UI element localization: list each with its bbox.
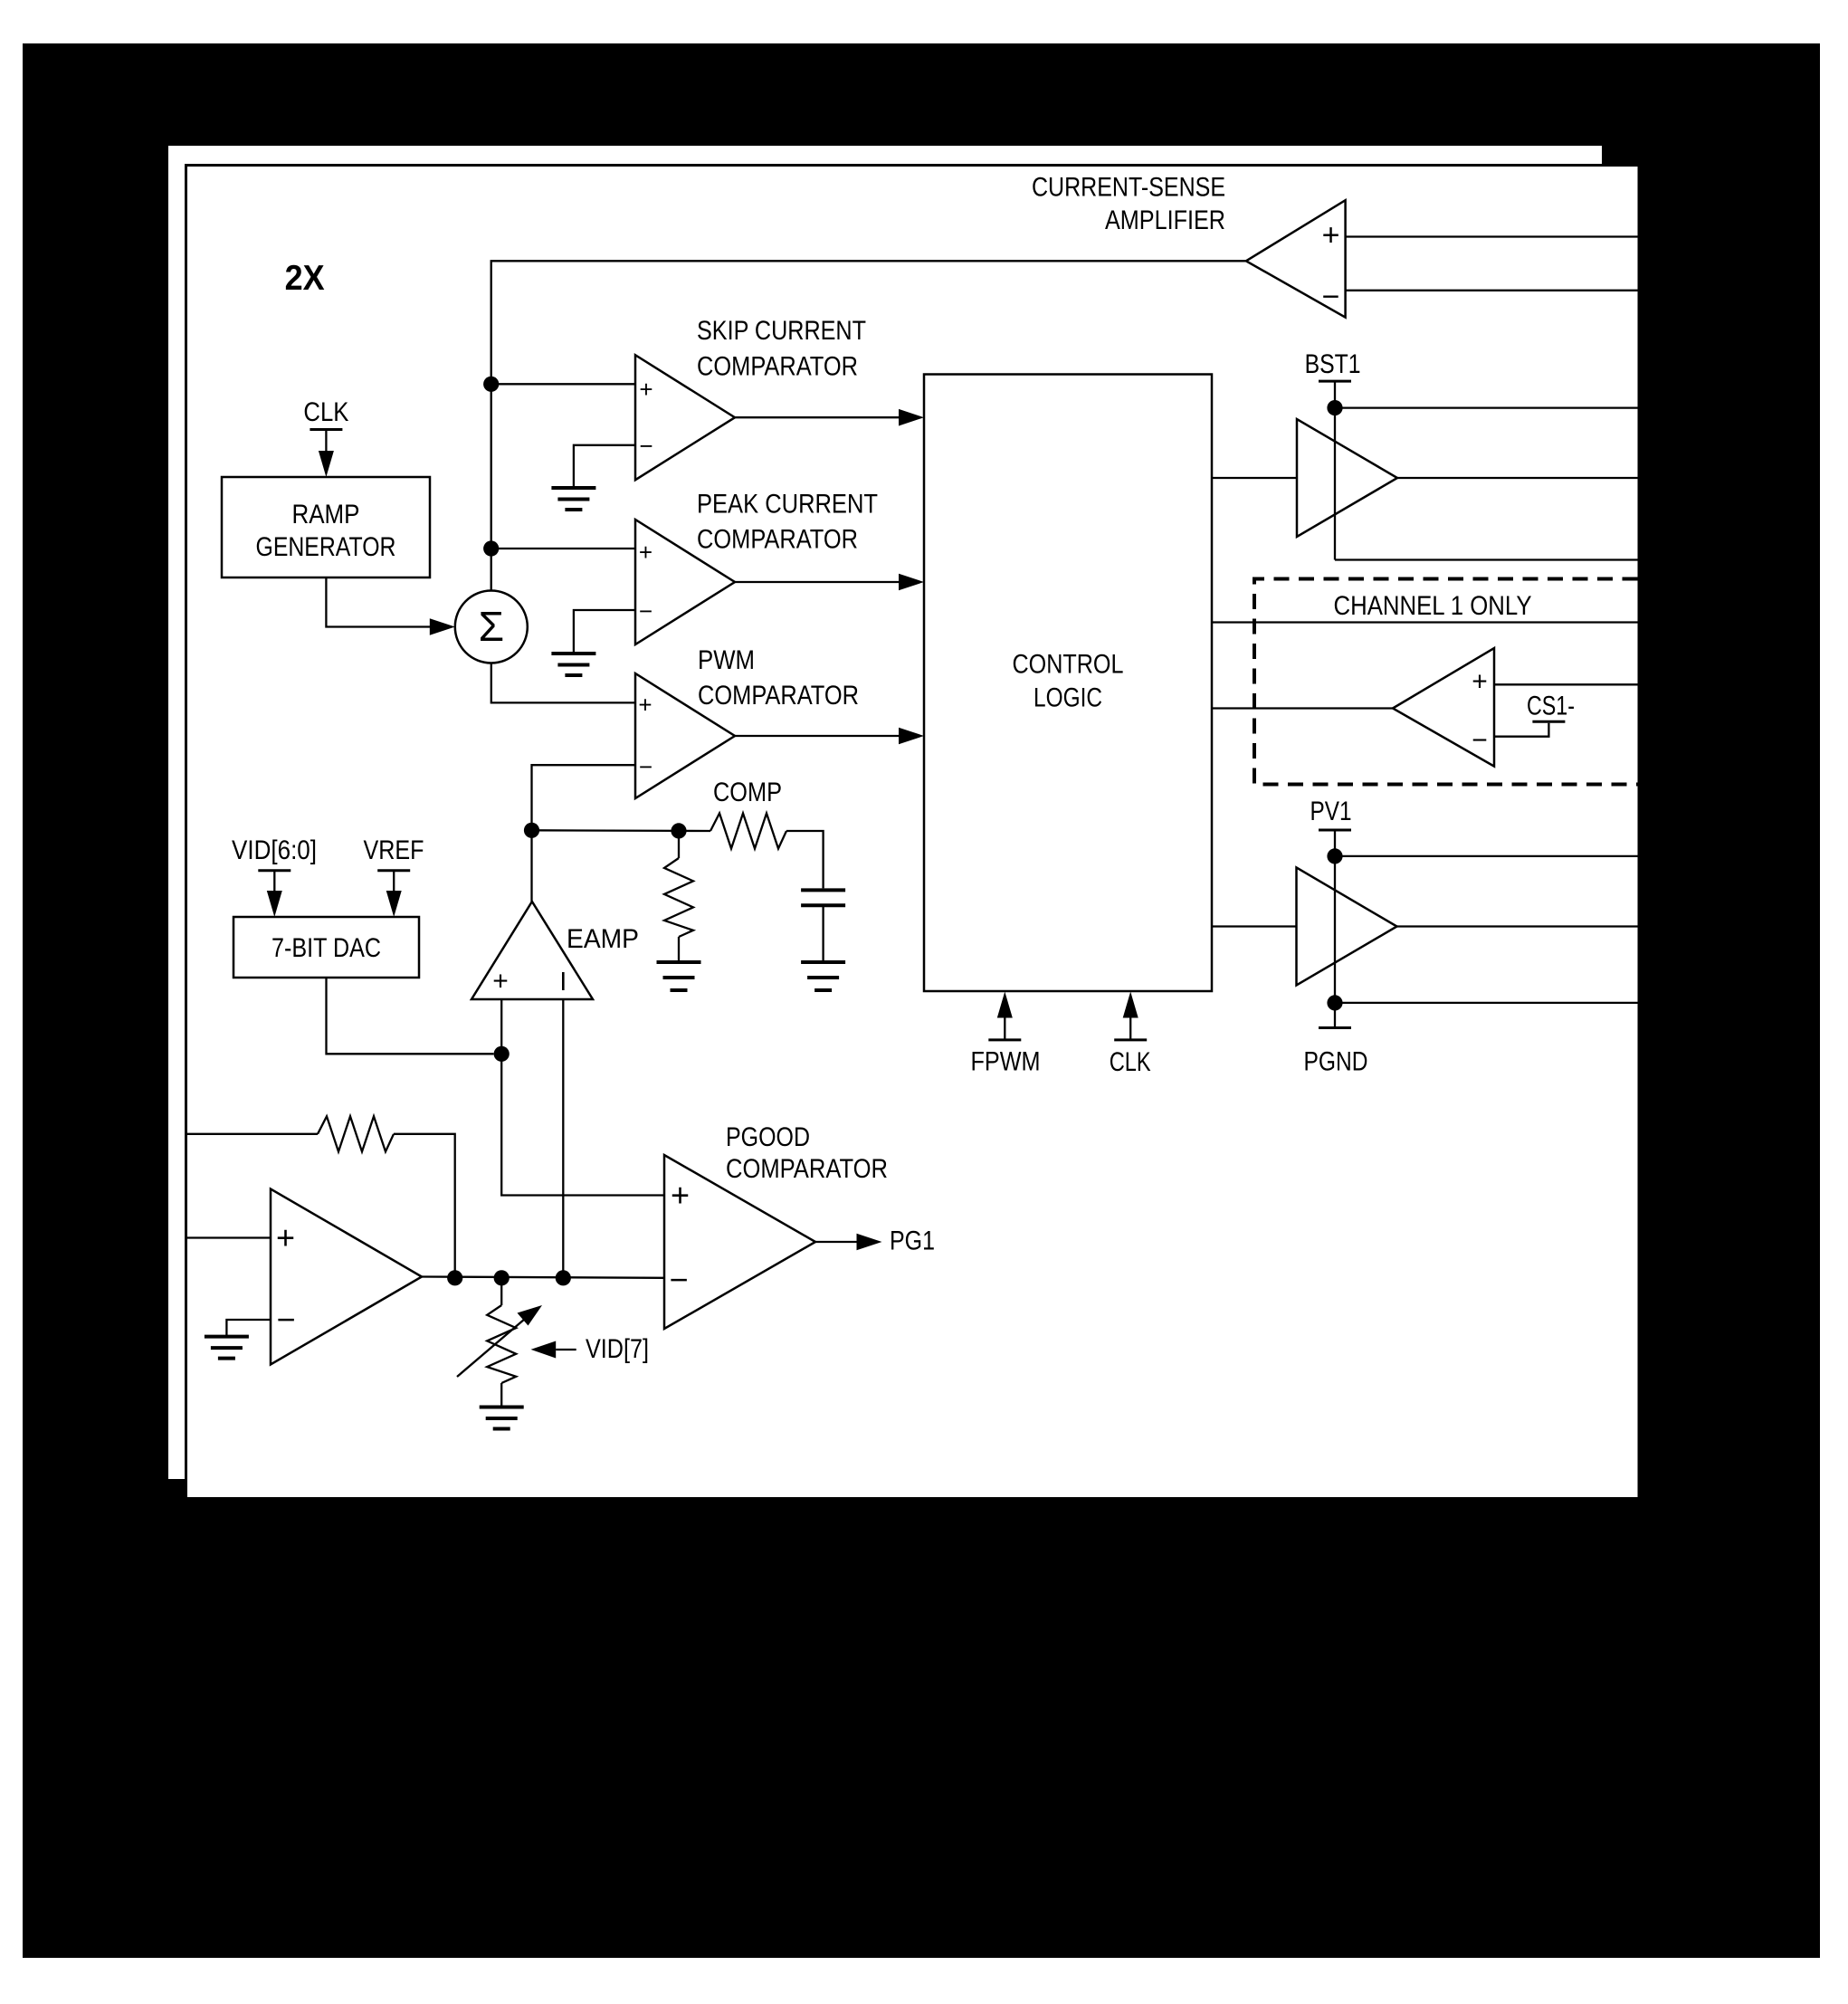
wire COMP resistor to capacitor (786, 831, 824, 888)
label PGND (1304, 1046, 1368, 1076)
wire peak comparator output to control logic (735, 574, 924, 591)
svg-text:+: + (638, 692, 652, 719)
minus input label CS1 amp (1472, 726, 1488, 756)
plus input label CS1 amp (1472, 667, 1488, 697)
wire peak comparator - input (574, 610, 635, 654)
svg-text:+: + (1322, 218, 1340, 253)
resistor COMP series (710, 814, 786, 849)
junction dot EAMP feedback node (556, 1270, 571, 1285)
svg-text:BST1: BST1 (1305, 349, 1361, 379)
pin CLK bottom (1114, 992, 1147, 1040)
wire control logic out through dashed box to sheet edge (1212, 621, 1638, 623)
pin CLK (310, 430, 342, 478)
front schematic sheet (channel 1) (185, 164, 1638, 1497)
plus input label PGOOD (671, 1177, 690, 1214)
plus input label skip comparator (639, 376, 653, 403)
wire ramp generator output to summer (326, 577, 454, 635)
pin PV1 (1319, 830, 1351, 856)
pin VREF (377, 871, 410, 917)
wire skip comparator output to control logic (735, 409, 924, 426)
svg-text:PEAK CURRENT: PEAK CURRENT (697, 490, 878, 520)
label PGOOD COMPARATOR (726, 1122, 888, 1184)
pin FPWM (988, 992, 1021, 1040)
ground below COMP capacitor (801, 962, 845, 990)
label PWM COMPARATOR (698, 645, 859, 711)
svg-text:2X: 2X (285, 259, 325, 298)
op-amp current-sense amplifier (1246, 200, 1346, 317)
svg-text:CONTROL: CONTROL (1013, 650, 1124, 680)
pin PGND (1319, 1003, 1351, 1028)
wire sense + input from sheet edge (185, 1236, 271, 1238)
junction dot PV1 (1327, 848, 1342, 864)
svg-text:VID[7]: VID[7] (586, 1334, 649, 1364)
comparator PGOOD (664, 1155, 815, 1329)
pin VID[6:0] (258, 871, 291, 917)
junction dot VID7 node (494, 1270, 510, 1285)
buffer DH driver (1297, 419, 1397, 537)
svg-text:PG1: PG1 (890, 1226, 935, 1256)
label 2X (two identical channels) (285, 259, 325, 298)
svg-text:+: + (276, 1219, 295, 1256)
wire EAMP output to apex (530, 830, 532, 902)
svg-text:CLK: CLK (303, 397, 348, 427)
pin BST1 (1319, 381, 1351, 408)
label COMP (713, 778, 782, 807)
junction dot EAMP output node (524, 823, 539, 838)
wire summer output to PWM + input (491, 663, 635, 703)
plus input label sense op-amp (276, 1219, 295, 1256)
plus input label PWM comparator (638, 692, 652, 719)
label VID[7] (586, 1334, 649, 1364)
label VID[6:0] pin (232, 835, 317, 865)
svg-text:−: − (1322, 280, 1340, 314)
comparator skip current (635, 355, 735, 480)
minus input label peak comparator (639, 597, 653, 625)
block RAMP GENERATOR (222, 477, 430, 577)
wire feedback input from sheet edge (185, 1133, 318, 1135)
wire PV1 to sheet edge (1335, 855, 1638, 857)
minus input label of current-sense amplifier (1322, 280, 1340, 314)
wire DAC output to EAMP + node (327, 978, 494, 1054)
wire shunt resistor to ground (678, 937, 680, 962)
svg-text:CS1-: CS1- (1527, 692, 1575, 721)
dashed box CHANNEL 1 ONLY (1254, 579, 1638, 785)
front sheet top border (185, 164, 1638, 167)
op-amp remote sense (271, 1189, 422, 1365)
svg-text:PWM: PWM (698, 645, 755, 675)
svg-text:COMPARATOR: COMPARATOR (697, 351, 858, 381)
minus input label PGOOD (669, 1261, 688, 1298)
ground below VID7 resistor (480, 1408, 524, 1429)
svg-text:COMP: COMP (713, 778, 782, 807)
svg-text:+: + (639, 539, 653, 566)
svg-text:−: − (639, 753, 653, 780)
svg-text:7-BIT DAC: 7-BIT DAC (271, 933, 381, 963)
svg-text:−: − (639, 433, 653, 460)
svg-text:−: − (669, 1261, 688, 1298)
label CS1- (1527, 692, 1575, 721)
wire BST1 supply through driver (1334, 408, 1336, 560)
wire skip comparator - input (574, 445, 635, 488)
wire CS1 amp - input to CS1- pin (1494, 723, 1548, 737)
label CURRENT-SENSE AMPLIFIER (1032, 173, 1225, 236)
label PG1 (890, 1226, 935, 1256)
label FPWM (971, 1047, 1041, 1077)
plus input label of current-sense amplifier (1322, 218, 1340, 253)
svg-text:+: + (671, 1177, 690, 1214)
op-amp channel-1 current-sense (1393, 648, 1494, 767)
wire sense - input to ground (226, 1320, 271, 1337)
wire peak comparator + input (491, 548, 635, 549)
wire EAMP - input feedback riser (562, 999, 564, 1278)
label SKIP CURRENT COMPARATOR (697, 316, 866, 381)
sigma symbol (479, 603, 504, 650)
junction dot feedback node (447, 1270, 462, 1285)
wire DAC node down to PGOOD + input (501, 1054, 664, 1195)
plus input label EAMP (492, 967, 509, 997)
svg-text:CLK: CLK (1110, 1047, 1151, 1077)
svg-text:PGND: PGND (1304, 1046, 1368, 1076)
arrow across VID7 resistor (457, 1305, 542, 1377)
label EAMP (567, 924, 639, 954)
junction dot skip + input (483, 377, 499, 392)
resistor feedback (318, 1116, 394, 1151)
label CLK pin (303, 397, 348, 427)
label CONTROL LOGIC (1013, 650, 1124, 713)
svg-text:−: − (276, 1301, 295, 1338)
svg-text:VID[6:0]: VID[6:0] (232, 835, 317, 865)
label CLK bottom pin (1110, 1047, 1151, 1077)
svg-text:+: + (1472, 667, 1488, 697)
junction dot PGND (1327, 995, 1342, 1010)
wire VID7 resistor stem (500, 1278, 502, 1305)
wire control logic to DH driver (1212, 477, 1297, 479)
capacitor COMP (801, 890, 845, 962)
label PEAK CURRENT COMPARATOR (697, 490, 878, 555)
junction dot COMP node (671, 823, 686, 838)
ground at peak comparator - input (551, 654, 595, 675)
svg-text:−: − (1472, 726, 1488, 756)
minus input label EAMP (rotated) (562, 972, 565, 990)
back schematic sheet (channel 2) (168, 146, 1602, 1479)
svg-text:RAMP: RAMP (292, 500, 360, 530)
wire CS1 amp + input to sheet edge (1494, 683, 1638, 685)
svg-text:COMPARATOR: COMPARATOR (698, 681, 859, 711)
label VREF pin (364, 835, 424, 865)
wire PWM comparator output to control logic (735, 728, 924, 745)
wire BST1 to sheet edge (1335, 406, 1638, 408)
op-amp EAMP error amplifier (472, 902, 593, 999)
label 7-BIT DAC (271, 933, 381, 963)
junction dot peak + input (483, 540, 499, 556)
wire VID7 resistor to ground (500, 1383, 502, 1408)
svg-text:EAMP: EAMP (567, 924, 639, 954)
buffer DL driver (1297, 867, 1397, 985)
ground at sense op-amp - input (205, 1337, 249, 1359)
svg-text:COMPARATOR: COMPARATOR (726, 1154, 888, 1184)
ground below COMP shunt resistor (657, 962, 701, 990)
comparator peak current (635, 520, 735, 644)
svg-text:LOGIC: LOGIC (1034, 683, 1102, 713)
label CHANNEL 1 ONLY (1334, 591, 1532, 621)
plus input label peak comparator (639, 539, 653, 566)
svg-text:+: + (492, 967, 509, 997)
svg-text:FPWM: FPWM (971, 1047, 1041, 1077)
minus input label PWM comparator (639, 753, 653, 780)
junction dot DAC / EAMP+ node (494, 1046, 510, 1062)
variable resistor VID[7] (487, 1305, 516, 1383)
front sheet left border (185, 164, 187, 1497)
block CONTROL LOGIC (924, 375, 1212, 992)
svg-text:Σ: Σ (479, 603, 504, 650)
wire CS1 amp output to control logic (1212, 707, 1393, 709)
wire CSA output to summing bus (491, 261, 1246, 590)
label PV1 pin (1310, 797, 1352, 826)
svg-text:CHANNEL 1 ONLY: CHANNEL 1 ONLY (1334, 591, 1532, 621)
label BST1 pin (1305, 349, 1361, 379)
wire DL driver output to sheet edge (1397, 925, 1638, 927)
summing node sigma (455, 591, 528, 663)
svg-text:VREF: VREF (364, 835, 424, 865)
wire control logic to DL driver (1212, 925, 1297, 927)
wire DH driver output to sheet edge (1397, 477, 1638, 479)
arrow VID[7] pointer (531, 1341, 576, 1359)
wire COMP node to series resistor (679, 830, 710, 832)
svg-text:GENERATOR: GENERATOR (256, 532, 396, 562)
pin CS1- (1532, 720, 1565, 723)
block 7-BIT DAC (233, 917, 419, 978)
svg-text:PV1: PV1 (1310, 797, 1352, 826)
minus input label skip comparator (639, 433, 653, 460)
label RAMP GENERATOR (256, 500, 396, 562)
wire feedback resistor to output node (394, 1134, 455, 1278)
svg-text:PGOOD: PGOOD (726, 1122, 810, 1152)
wire CSA - input to sheet edge (1346, 290, 1638, 291)
wire PV1 supply through driver (1334, 856, 1336, 1003)
wire PGND rail to sheet edge (1335, 1002, 1638, 1004)
svg-text:SKIP CURRENT: SKIP CURRENT (697, 316, 866, 346)
wire sense op-amp output bus (422, 1277, 664, 1278)
resistor COMP shunt (664, 831, 693, 937)
svg-text:−: − (639, 597, 653, 625)
svg-text:COMPARATOR: COMPARATOR (697, 525, 858, 555)
svg-text:CURRENT-SENSE: CURRENT-SENSE (1032, 173, 1225, 203)
wire EAMP + input stem (500, 999, 502, 1054)
minus input label sense op-amp (276, 1301, 295, 1338)
wire CSA + input to sheet edge (1346, 235, 1638, 237)
wire EAMP output node to COMP node (532, 829, 680, 832)
svg-text:AMPLIFIER: AMPLIFIER (1105, 205, 1225, 235)
wire DH driver return rail to sheet edge (1335, 558, 1638, 560)
svg-text:+: + (639, 376, 653, 403)
ground at skip comparator - input (551, 488, 595, 510)
wire PGOOD output to PG1 (815, 1234, 882, 1251)
wire PWM comparator - input from EAMP output (532, 765, 636, 830)
junction dot BST1 (1327, 400, 1342, 415)
wire skip comparator + input (491, 383, 635, 385)
comparator PWM (635, 673, 735, 798)
